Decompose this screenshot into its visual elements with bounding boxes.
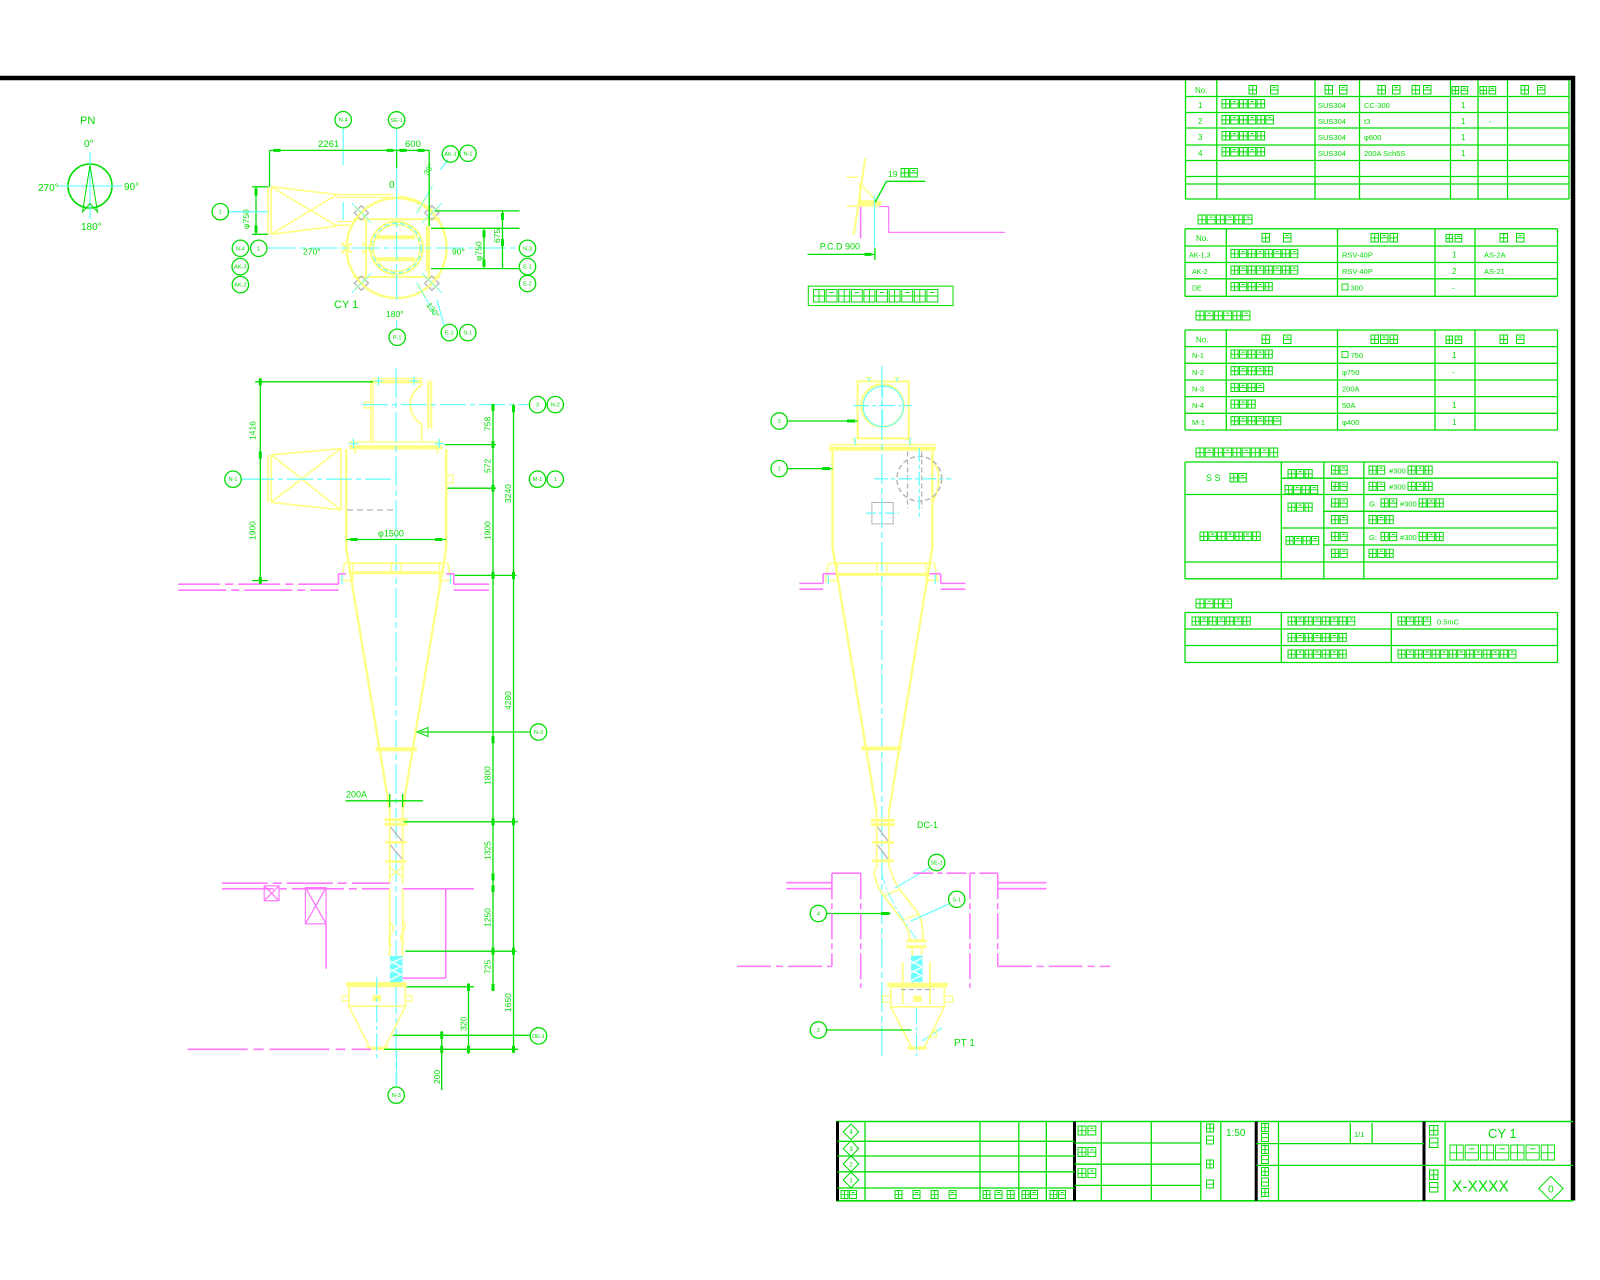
svg-text:50A: 50A — [1342, 401, 1355, 410]
svg-text:PN: PN — [80, 115, 95, 127]
svg-text:1650: 1650 — [503, 993, 513, 1012]
svg-text:SUS304: SUS304 — [1318, 149, 1346, 158]
svg-text:90°: 90° — [452, 247, 465, 257]
sheet frame right border — [1571, 76, 1576, 1201]
side hidden inlet crosshair — [874, 478, 951, 480]
revision table verticals — [864, 1122, 866, 1201]
plan balloon N-1 30deg — [460, 145, 476, 161]
plan balloon N-4 top — [335, 112, 351, 128]
revision footer labels — [841, 1191, 857, 1199]
svg-text:-: - — [1452, 368, 1455, 377]
svg-text:E-2: E-2 — [523, 282, 532, 288]
side balloon 1 — [788, 468, 833, 470]
svg-text:DE-1: DE-1 — [532, 1034, 545, 1040]
front balloon N-3 cone leader — [420, 731, 530, 733]
detail lug top line — [847, 176, 859, 178]
side pit bottom left — [737, 965, 832, 967]
svg-text:-: - — [1489, 117, 1492, 126]
svg-text:AS-21: AS-21 — [1484, 267, 1505, 276]
front manhole stub right wall — [446, 475, 453, 483]
svg-text:N-4: N-4 — [1192, 401, 1204, 410]
detail magenta beam step — [879, 207, 1005, 233]
surface finish title — [1196, 599, 1232, 608]
front ext line valve top — [407, 986, 474, 988]
plan view inlet duct upper wall crossing — [376, 235, 415, 239]
front hopper center block — [373, 995, 381, 1001]
svg-text:#300: #300 — [1400, 533, 1417, 542]
svg-text:2261: 2261 — [318, 139, 339, 150]
svg-text:CY 1: CY 1 — [1488, 1126, 1517, 1141]
side dipleg flanges — [871, 819, 895, 822]
side body flange bolts — [852, 439, 858, 445]
detail magenta beam left — [860, 207, 862, 239]
svg-text:0°: 0° — [84, 139, 94, 150]
svg-text:0: 0 — [389, 180, 395, 191]
detail cyclone shell slant line — [854, 159, 865, 235]
side dipleg gray hatch — [878, 827, 889, 841]
svg-text:2: 2 — [1198, 117, 1203, 126]
job number column — [1278, 1122, 1280, 1201]
svg-text:3240: 3240 — [503, 484, 513, 503]
surface finish texts — [1192, 617, 1250, 625]
svg-text:RSV-40P: RSV-40P — [1342, 267, 1373, 276]
design block verticals — [1100, 1122, 1102, 1201]
plan right dim 675 — [502, 211, 504, 269]
front dipleg flanges — [385, 818, 408, 821]
svg-text:N-4: N-4 — [236, 246, 245, 252]
side outlet box — [858, 381, 909, 438]
front hopper outlet balloon leader — [396, 1052, 398, 1087]
front GL floor magenta — [188, 1048, 371, 1050]
front inlet hidden line gray — [347, 509, 393, 511]
svg-text:φ600: φ600 — [1364, 133, 1381, 142]
side valve hidden line — [901, 989, 934, 991]
compass needle — [83, 165, 98, 212]
svg-text:4: 4 — [817, 912, 820, 918]
svg-text:1: 1 — [1452, 251, 1457, 260]
front support ring — [349, 562, 444, 564]
plan balloon E-2 right — [519, 275, 535, 291]
plan balloon D left — [251, 240, 267, 256]
detail title text — [814, 290, 938, 303]
front hopper cone — [349, 1006, 369, 1046]
side pit magenta top edges — [832, 872, 861, 874]
front 2F floor magenta right — [403, 888, 474, 890]
front hopper centerline — [376, 977, 378, 1058]
nozzle list title — [1196, 311, 1250, 320]
accessory list grid — [1184, 229, 1186, 296]
front leader line DE-1 — [393, 1034, 530, 1036]
svg-text:N-3: N-3 — [534, 730, 543, 736]
svg-text:675: 675 — [492, 229, 502, 243]
plan view duct centerline tick — [342, 129, 344, 166]
detail gusset — [860, 184, 877, 202]
front outlet centerline horizontal — [362, 404, 528, 406]
plan balloon N-3 right — [519, 240, 535, 256]
svg-text:2: 2 — [817, 1028, 820, 1034]
side hidden inlet circle — [897, 456, 942, 501]
front balloons outlet right — [529, 396, 545, 412]
side cone mid flange — [861, 747, 901, 751]
front balloon DE-1 — [530, 1028, 546, 1044]
side hidden inlet duct — [907, 452, 909, 509]
front dim 320 vertical — [468, 983, 470, 1054]
svg-text:1: 1 — [1461, 149, 1466, 158]
svg-text:SE-1: SE-1 — [390, 118, 402, 124]
svg-text:AK-2: AK-2 — [234, 283, 246, 289]
drawing name japanese — [1450, 1145, 1554, 1160]
svg-text:φ750: φ750 — [474, 241, 484, 261]
svg-text:No.: No. — [1195, 86, 1207, 95]
plan view inlet duct lower wall crossing — [376, 257, 415, 261]
svg-text:N-2: N-2 — [1192, 368, 1204, 377]
svg-text:N-3: N-3 — [1192, 385, 1204, 394]
front outlet flange bolt marks — [375, 380, 383, 382]
plan view nozzle mark west 270deg — [342, 243, 352, 253]
front outlet duct top flange — [372, 378, 422, 380]
front left dim chain — [255, 381, 373, 383]
revision table horizontals — [838, 1140, 1075, 1142]
svg-text:RSV-40P: RSV-40P — [1342, 251, 1373, 260]
svg-text:φ1500: φ1500 — [378, 529, 404, 539]
surface finish grid — [1184, 613, 1186, 663]
svg-text:N-4: N-4 — [339, 118, 348, 124]
plan view lifting lug SW — [345, 267, 378, 300]
svg-text:SE-1: SE-1 — [930, 861, 942, 867]
side valve center block — [913, 996, 921, 1002]
side floor magenta right — [941, 582, 966, 584]
svg-text:1: 1 — [554, 477, 557, 483]
front body shell — [345, 449, 347, 549]
svg-text:750: 750 — [1351, 351, 1364, 360]
svg-text:270°: 270° — [303, 247, 321, 257]
compass circle — [68, 164, 112, 208]
plan balloon P-1 bottom — [389, 329, 405, 345]
svg-text:G:: G: — [1369, 533, 1377, 542]
front centerline vertical — [395, 368, 397, 1085]
side ring gussets — [826, 563, 838, 580]
svg-text:AK-1: AK-1 — [444, 152, 456, 158]
side pit magenta walls — [831, 873, 833, 966]
svg-text:1416: 1416 — [248, 421, 258, 440]
side hidden handhole square — [872, 503, 893, 524]
svg-text:320: 320 — [459, 1017, 469, 1031]
svg-text:P-1: P-1 — [393, 335, 402, 341]
accessory list title — [1198, 215, 1252, 224]
plan right extension lines — [435, 210, 520, 212]
svg-text:No.: No. — [1196, 234, 1208, 243]
plan balloon AK-3 left — [232, 258, 248, 274]
svg-text:0: 0 — [1548, 1184, 1554, 1195]
side valve body — [891, 987, 945, 1007]
front floor beam box large — [305, 888, 326, 924]
svg-text:N-3: N-3 — [523, 246, 532, 252]
front outlet left stub — [365, 402, 371, 408]
svg-text:SUS304: SUS304 — [1318, 117, 1346, 126]
drawing name column — [1444, 1122, 1446, 1201]
svg-text:4: 4 — [1198, 149, 1203, 158]
sheet number cell — [1349, 1123, 1351, 1144]
plan view top plate square — [353, 218, 440, 220]
svg-text:#300: #300 — [1389, 483, 1406, 492]
detail anchor bolt centerline — [874, 196, 876, 247]
svg-text:1: 1 — [1452, 351, 1457, 360]
svg-text:CY 1: CY 1 — [334, 299, 358, 311]
front inner dim chain vertical — [492, 404, 494, 990]
svg-text:90°: 90° — [124, 182, 139, 193]
side flex joint cyan — [911, 956, 923, 982]
front cone mid flange — [376, 747, 417, 751]
detail support plate — [860, 201, 882, 205]
front dipleg pipe — [389, 810, 391, 883]
front hopper body — [349, 986, 406, 1006]
plan balloon S-1 150deg — [460, 324, 476, 340]
plan balloon leader flange — [229, 211, 269, 213]
side hopper centerline — [916, 1008, 918, 1056]
front dim 200 vertical — [441, 1031, 443, 1090]
title block black dividers — [836, 1122, 839, 1201]
svg-text:SUS304: SUS304 — [1318, 133, 1346, 142]
front inlet transition diagonals — [271, 455, 341, 510]
front dipleg X brace — [390, 867, 403, 878]
svg-text:PT 1: PT 1 — [954, 1038, 975, 1049]
front ext lines to dim chains — [445, 444, 496, 446]
plan view volute scroll arc — [397, 197, 434, 212]
svg-text:S-1: S-1 — [952, 897, 961, 903]
sheet frame top border — [0, 76, 1575, 81]
front body top flange plate — [349, 441, 442, 443]
side pit ledge right — [998, 882, 1047, 884]
svg-text:P.C.D 900: P.C.D 900 — [820, 242, 860, 252]
side balloon 4 — [827, 913, 891, 915]
side pit bottom right — [998, 965, 1110, 967]
plan view inlet transition cone outline — [271, 187, 337, 195]
front hopper top flange — [346, 982, 407, 986]
side pit ledge left — [786, 882, 832, 884]
svg-text:N-1: N-1 — [228, 477, 237, 483]
svg-text:1: 1 — [1461, 117, 1466, 126]
svg-text:S S: S S — [1206, 473, 1221, 483]
plan view outlet pipe inner circle — [373, 225, 420, 272]
svg-text:3: 3 — [1198, 133, 1203, 142]
svg-text:725: 725 — [482, 960, 492, 974]
plan view inlet transition diagonals — [271, 187, 337, 226]
svg-text:DE: DE — [1192, 286, 1202, 293]
plan right dim phi750 — [483, 228, 485, 268]
front ring break marks — [391, 562, 393, 575]
svg-text:#300: #300 — [1389, 467, 1406, 476]
svg-text:AK-2: AK-2 — [1192, 269, 1208, 276]
front ext line hopper bottom — [384, 1048, 518, 1050]
side weld leader — [922, 1028, 942, 1041]
svg-text:E-1: E-1 — [445, 331, 454, 337]
svg-text:1900: 1900 — [248, 521, 258, 540]
svg-text:3: 3 — [536, 403, 539, 409]
svg-text:1: 1 — [1461, 101, 1466, 110]
front support gusset right — [440, 563, 452, 580]
svg-text:N-3: N-3 — [392, 1093, 401, 1099]
side ring break marks — [877, 563, 879, 576]
svg-text:N-1: N-1 — [1192, 351, 1204, 360]
front flex joint cyan — [390, 956, 403, 982]
front inlet transition cone — [271, 449, 341, 455]
side elbow seam — [884, 890, 901, 896]
revision diamonds — [843, 1124, 859, 1140]
svg-text:#300: #300 — [1400, 500, 1417, 509]
front hopper outlet flange — [366, 1047, 388, 1050]
svg-text:1: 1 — [257, 246, 260, 252]
front balloon N-3 bottom — [388, 1087, 404, 1103]
side outlet circle cyan — [863, 386, 903, 426]
svg-text:1/1: 1/1 — [1354, 1130, 1364, 1139]
plan balloon E-1 150deg — [441, 324, 457, 340]
front dipleg pipe below floor — [389, 889, 391, 956]
material table title — [1196, 448, 1278, 457]
date approval narrow column — [1207, 1124, 1214, 1144]
side dipleg pipe — [876, 812, 878, 866]
front body flange bolt marks — [349, 443, 358, 445]
plan balloon pair 30deg leader — [440, 160, 448, 170]
side cone shell — [833, 548, 877, 812]
svg-text:758: 758 — [482, 417, 492, 431]
plan view centerline horizontal — [268, 247, 520, 249]
svg-text:19: 19 — [888, 169, 898, 179]
svg-text:200A: 200A — [1342, 385, 1360, 394]
compass centerlines — [58, 185, 122, 187]
front inlet flange — [267, 455, 269, 502]
side balloon 3 — [788, 420, 858, 422]
svg-text:1325: 1325 — [482, 841, 492, 860]
plan view lifting lug SE — [416, 267, 449, 300]
svg-text:2: 2 — [1452, 267, 1457, 276]
side elbow flange — [906, 939, 926, 942]
side main centerline — [881, 366, 883, 1058]
svg-text:572: 572 — [482, 459, 492, 473]
plan balloon AK-1 30deg — [442, 146, 458, 162]
svg-text:1800: 1800 — [482, 766, 492, 785]
front upper floor magenta right — [446, 573, 453, 575]
svg-text:180°: 180° — [81, 222, 102, 233]
plan view centerline vertical — [396, 129, 398, 191]
side valve bolts — [902, 962, 904, 1004]
svg-text:G:: G: — [1369, 500, 1377, 509]
front support gusset left — [342, 563, 354, 580]
front dim phi1500 — [346, 539, 446, 541]
svg-text:AK-3: AK-3 — [234, 265, 246, 271]
svg-text:1: 1 — [1452, 401, 1457, 410]
side dipleg flare — [874, 866, 877, 873]
svg-text:1900: 1900 — [482, 521, 492, 540]
title block top border — [836, 1121, 1573, 1123]
front balloons midright — [529, 471, 545, 487]
plan balloon E-1 right — [519, 258, 535, 274]
svg-text:AK-1,3: AK-1,3 — [1189, 253, 1211, 260]
front ext line dipleg flange — [404, 821, 518, 823]
svg-text:SUS304: SUS304 — [1318, 101, 1346, 110]
svg-text:CC-300: CC-300 — [1364, 101, 1390, 110]
plan view nozzle mark 150deg — [411, 279, 441, 317]
plan view square inner right band — [426, 226, 430, 271]
side hopper cone — [891, 1007, 911, 1046]
plan view cyclone body outer circle — [347, 198, 447, 298]
front ring cyan ticks — [341, 575, 343, 585]
plan view lifting lug NE — [416, 197, 449, 230]
svg-text:φ400: φ400 — [1342, 418, 1359, 427]
plan view inlet flange — [267, 187, 269, 235]
nozzle list grid — [1184, 330, 1186, 430]
side elbow bend — [874, 873, 910, 941]
plan balloon AK-2 left — [232, 276, 248, 292]
svg-text:600: 600 — [405, 139, 421, 150]
front body top flange bolt tabs — [354, 449, 356, 453]
plan view nozzle mark 30deg — [411, 182, 439, 217]
side ring cyan ticks — [827, 575, 829, 585]
svg-text:M-1: M-1 — [533, 477, 543, 483]
svg-text:1: 1 — [849, 1177, 853, 1184]
svg-text:300: 300 — [1351, 284, 1364, 293]
front outlet end flange — [427, 381, 429, 429]
svg-text:1: 1 — [1198, 101, 1203, 110]
svg-text:t3: t3 — [1364, 117, 1370, 126]
front dipleg gray hatch — [391, 827, 403, 841]
front floor beam box small — [264, 886, 279, 901]
svg-text:200A Sch5S: 200A Sch5S — [1364, 149, 1405, 158]
design block labels — [1078, 1126, 1096, 1135]
side outlet circle yellow — [861, 384, 903, 426]
svg-text:φ750: φ750 — [1342, 368, 1359, 377]
svg-text:4: 4 — [849, 1129, 853, 1136]
side elbow centerline — [882, 873, 917, 939]
plan balloon SE-1 top — [388, 112, 404, 128]
svg-text:200A: 200A — [346, 790, 367, 800]
plan balloon N-1 flange — [212, 204, 228, 220]
svg-text:S-1: S-1 — [463, 331, 472, 337]
side balloon 2 — [827, 1029, 912, 1031]
svg-text:1: 1 — [778, 467, 781, 473]
svg-text:1250: 1250 — [482, 908, 492, 927]
front outlet riser duct walls — [370, 383, 372, 441]
svg-text:180°: 180° — [386, 309, 404, 319]
plan dim top line 2261/600 — [270, 149, 430, 151]
side outlet circle crosshair — [853, 405, 912, 407]
svg-text:0.5mC: 0.5mC — [1437, 618, 1460, 627]
svg-text:1: 1 — [1452, 418, 1457, 427]
side inlet scroll bulge — [932, 460, 939, 503]
svg-text:X-XXXX: X-XXXX — [1452, 1179, 1510, 1196]
plan balloon bottom leader — [396, 320, 398, 329]
design block horizontals — [1075, 1142, 1201, 1144]
side body top flange — [829, 444, 936, 446]
side body shell — [831, 451, 833, 548]
svg-text:1: 1 — [219, 210, 222, 216]
svg-text:E-1: E-1 — [523, 265, 532, 271]
plan view inlet duct top wall — [337, 194, 393, 196]
side balloon S-1 elbow — [911, 904, 949, 921]
front outlet dished head arc — [410, 385, 421, 424]
material table grid — [1184, 462, 1186, 579]
front cone shell — [346, 549, 390, 811]
svg-text:-: - — [1452, 284, 1455, 293]
plan view lifting lug NW — [345, 197, 378, 230]
title block bottom border — [836, 1200, 1573, 1202]
svg-text:4280: 4280 — [503, 691, 513, 710]
svg-text:N-2: N-2 — [551, 403, 560, 409]
plan left dim phi750 at inlet flange — [252, 186, 268, 188]
plan balloon pair 150deg leader — [437, 300, 444, 325]
front outer dim chain vertical — [513, 404, 515, 1051]
svg-text:2: 2 — [849, 1161, 853, 1168]
front upper floor magenta left — [178, 583, 338, 585]
